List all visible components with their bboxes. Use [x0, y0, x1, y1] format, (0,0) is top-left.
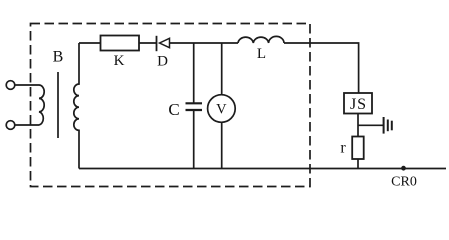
svg-text:JS: JS [350, 96, 367, 113]
svg-text:r: r [340, 140, 346, 157]
diode D cathode bar [156, 36, 158, 51]
JS box [344, 93, 372, 114]
capacitor C branch upper wire [193, 43, 195, 103]
capacitor C branch lower wire [193, 110, 195, 169]
wire K to diode D [139, 42, 157, 44]
bottom bus wire [79, 168, 446, 170]
voltmeter V circle [208, 95, 236, 123]
node CR0 junction dot [401, 166, 406, 171]
ground branch wire [358, 124, 383, 126]
svg-text:C: C [168, 100, 179, 119]
input terminal (bottom) [6, 121, 15, 130]
wire terminal-bottom to primary [15, 124, 39, 126]
wire secondary-top to K [79, 42, 101, 44]
resistor r box [352, 137, 364, 160]
svg-text:B: B [53, 49, 64, 66]
transformer B secondary winding [74, 43, 79, 169]
wire terminal-top to primary [15, 84, 39, 86]
wire D to L (top bus) [170, 42, 239, 44]
svg-text:D: D [157, 54, 168, 70]
input terminal (top) [6, 81, 15, 90]
ground symbol bars [383, 117, 385, 134]
diode D triangle [160, 38, 170, 47]
resistor K box [101, 36, 140, 51]
transformer B core [57, 72, 59, 138]
voltmeter V branch upper wire [221, 43, 223, 95]
wire JS to r [357, 114, 359, 137]
dashed enclosure box [31, 24, 311, 187]
inductor L [238, 36, 284, 43]
wire L to right corner [284, 43, 359, 93]
capacitor C plates [186, 102, 203, 104]
svg-text:CR0: CR0 [391, 175, 417, 190]
svg-text:V: V [216, 102, 227, 118]
transformer B primary winding [39, 85, 44, 125]
wire r to bottom bus [357, 159, 359, 169]
svg-text:L: L [257, 46, 266, 62]
voltmeter V branch lower wire [221, 122, 223, 168]
svg-text:K: K [114, 53, 125, 69]
